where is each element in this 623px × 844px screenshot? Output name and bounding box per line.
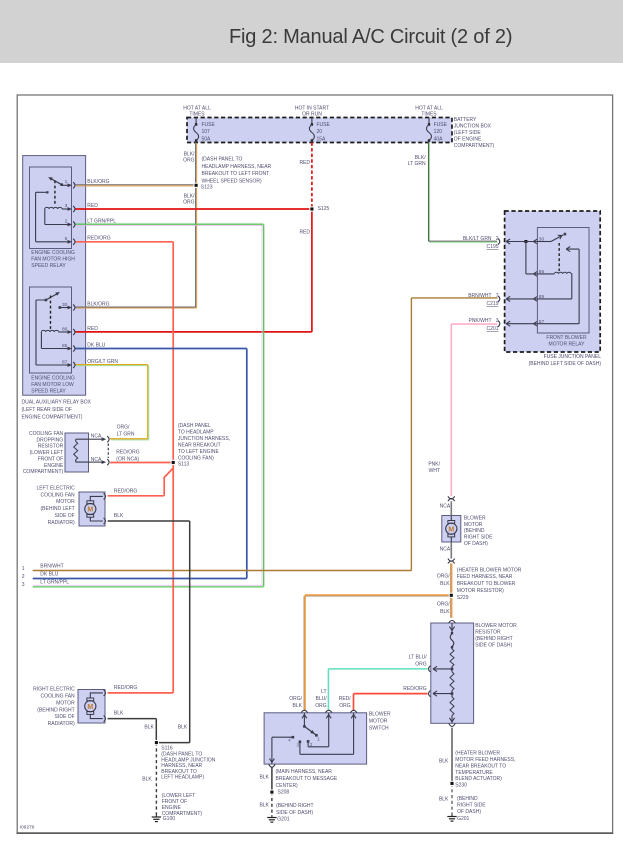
svg-text:LT GRN/PPL: LT GRN/PPL <box>87 219 116 225</box>
svg-text:FRONT BLOWERMOTOR RELAY: FRONT BLOWERMOTOR RELAY <box>546 335 587 348</box>
svg-text:BLK: BLK <box>439 758 449 764</box>
svg-text:BLK: BLK <box>439 797 449 803</box>
svg-text:NCA: NCA <box>440 546 451 552</box>
svg-text:BLK: BLK <box>142 777 152 783</box>
svg-text:G201: G201 <box>457 816 469 822</box>
svg-text:BLK: BLK <box>114 711 124 717</box>
svg-text:BLK/ORG: BLK/ORG <box>183 151 195 163</box>
svg-text:NCA: NCA <box>91 457 102 463</box>
svg-text:BLK: BLK <box>114 513 124 519</box>
svg-text:PNK/WHT: PNK/WHT <box>428 461 440 474</box>
svg-text:G201: G201 <box>277 817 289 823</box>
svg-text:BRN/WHT: BRN/WHT <box>40 563 63 569</box>
svg-text:BLK/ORG: BLK/ORG <box>183 193 195 205</box>
svg-text:RED/ORG: RED/ORG <box>114 685 137 691</box>
svg-text:87: 87 <box>62 359 68 365</box>
svg-text:87: 87 <box>539 319 545 325</box>
svg-text:BLK: BLK <box>178 724 188 730</box>
svg-text:DK BLU: DK BLU <box>87 343 105 349</box>
svg-text:RED/ORG(OR NCA): RED/ORG(OR NCA) <box>116 450 139 463</box>
svg-text:DK BLU: DK BLU <box>40 571 58 577</box>
svg-text:C195: C195 <box>487 244 499 250</box>
svg-text:RED/ORG: RED/ORG <box>403 686 426 692</box>
svg-text:30: 30 <box>62 302 68 308</box>
svg-text:BLK: BLK <box>144 724 154 730</box>
svg-text:G100: G100 <box>163 816 175 822</box>
svg-text:BLK: BLK <box>259 803 269 809</box>
svg-text:BLK/LT GRN 2: BLK/LT GRN 2 <box>463 236 499 242</box>
svg-text:M: M <box>87 507 93 514</box>
svg-text:(BEHIND RIGHTSIDE OF DASH): (BEHIND RIGHTSIDE OF DASH) <box>276 803 314 816</box>
svg-text:2: 2 <box>22 574 25 580</box>
svg-text:RED: RED <box>299 160 310 166</box>
svg-text:BLOWER MOTORRESISTOR(BEHIND RI: BLOWER MOTORRESISTOR(BEHIND RIGHTSIDE OF… <box>475 623 517 648</box>
svg-text:3: 3 <box>65 203 68 209</box>
svg-text:85: 85 <box>62 343 68 349</box>
svg-text:1: 1 <box>22 566 25 572</box>
svg-text:S208: S208 <box>278 790 290 796</box>
svg-text:C219: C219 <box>487 301 499 307</box>
svg-text:85: 85 <box>539 294 545 300</box>
svg-text:S116: S116 <box>161 745 173 751</box>
svg-text:RED/ORG: RED/ORG <box>114 488 137 494</box>
svg-text:86: 86 <box>539 269 545 275</box>
svg-text:86: 86 <box>62 327 68 333</box>
svg-text:BLK: BLK <box>259 775 269 781</box>
svg-text:ORG/LT GRN: ORG/LT GRN <box>87 359 118 365</box>
svg-text:M: M <box>87 704 93 711</box>
svg-text:3: 3 <box>22 582 25 588</box>
svg-text:I09276: I09276 <box>20 825 35 831</box>
svg-text:RED: RED <box>87 203 98 209</box>
svg-text:S125: S125 <box>318 206 330 212</box>
svg-text:RED/ORG: RED/ORG <box>339 696 352 709</box>
svg-text:5: 5 <box>65 236 68 242</box>
svg-text:1: 1 <box>65 179 68 185</box>
svg-text:BLK/ORG: BLK/ORG <box>87 179 109 185</box>
svg-text:NCA: NCA <box>91 434 102 440</box>
svg-text:BRN/WHT 7: BRN/WHT 7 <box>468 293 498 299</box>
svg-text:30: 30 <box>539 237 545 243</box>
svg-text:LT GRN/PPL: LT GRN/PPL <box>40 580 69 586</box>
svg-text:RED/ORG: RED/ORG <box>87 236 110 242</box>
svg-text:M: M <box>448 526 454 533</box>
svg-text:RED: RED <box>87 326 98 332</box>
svg-text:NCA: NCA <box>440 504 451 510</box>
svg-text:S123: S123 <box>201 185 213 191</box>
svg-text:PNK/WHT 3: PNK/WHT 3 <box>468 318 498 324</box>
svg-text:RED: RED <box>299 230 310 236</box>
svg-text:BLK/ORG: BLK/ORG <box>87 302 109 308</box>
svg-text:C201: C201 <box>487 326 499 332</box>
svg-text:2: 2 <box>65 219 68 225</box>
